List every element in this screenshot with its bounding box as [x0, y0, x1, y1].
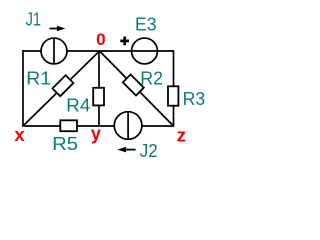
resistor R5 — [60, 120, 77, 131]
resistor R4 — [93, 88, 104, 106]
wire left rail x to top-left corner — [22, 50, 24, 126]
svg-text:R2: R2 — [140, 69, 163, 89]
svg-text:x: x — [14, 125, 24, 145]
resistor R3 — [168, 86, 178, 105]
svg-text:R1: R1 — [26, 68, 51, 88]
svg-text:z: z — [177, 126, 186, 146]
current source J1 — [41, 38, 67, 64]
svg-text:J1: J1 — [26, 10, 41, 30]
svg-text:E3: E3 — [135, 14, 157, 34]
wire top rail — [22, 50, 173, 52]
arrow J2 — [126, 149, 136, 151]
svg-text:R5: R5 — [52, 134, 78, 154]
svg-text:0: 0 — [96, 30, 105, 49]
wire diagonal x to 0 — [23, 51, 100, 126]
svg-text:R4: R4 — [66, 95, 90, 115]
wire center column 0 to y — [98, 51, 100, 126]
svg-text:R3: R3 — [183, 89, 206, 109]
wire right rail — [173, 50, 175, 126]
voltage source E3 — [132, 38, 158, 64]
wire bottom rail — [22, 125, 174, 127]
current source J2 — [114, 112, 142, 140]
svg-text:J2: J2 — [140, 141, 158, 161]
resistor R2 — [123, 75, 144, 96]
plus sign E3 — [120, 40, 129, 43]
arrow J1 — [50, 28, 59, 30]
svg-text:y: y — [91, 124, 101, 144]
resistor R1 — [52, 75, 73, 96]
wire diagonal 0 to z — [100, 51, 174, 126]
